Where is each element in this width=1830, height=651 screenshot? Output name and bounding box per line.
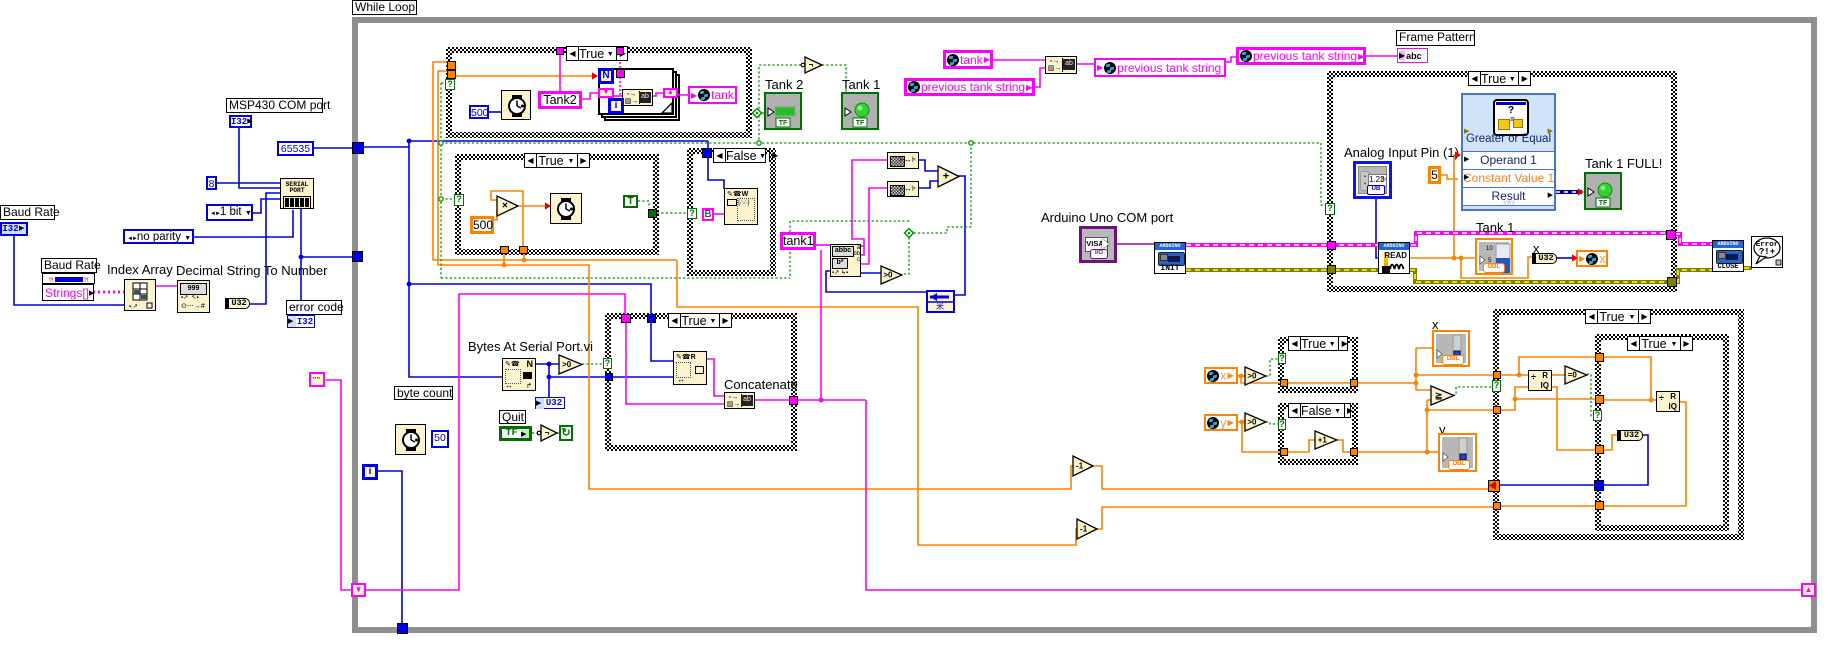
string control tank1 bbox=[780, 232, 816, 250]
wire: strings array to index array (bead) bbox=[93, 291, 124, 294]
wire: outer case quotient inputs bbox=[1500, 374, 1528, 376]
wire junction bbox=[1649, 398, 1654, 403]
y slider indicator bbox=[1438, 433, 1477, 472]
big case left tunnel olive bbox=[1327, 265, 1336, 274]
not gate top bbox=[800, 56, 824, 74]
wait ms icon case1 bbox=[501, 90, 531, 120]
case2 selector label True bbox=[524, 153, 590, 168]
wire junction bbox=[502, 263, 507, 268]
wire: blue to case3 B scanner bbox=[707, 141, 709, 158]
Tank 2 LED terminal bbox=[764, 92, 802, 130]
globe indicator previous tank string bbox=[1094, 58, 1226, 77]
Tank 1 LED terminal bbox=[841, 92, 879, 130]
boolean wire junction diamond bbox=[753, 109, 762, 118]
svg-text:≧: ≧ bbox=[1435, 391, 1443, 401]
serial port config icon bbox=[280, 178, 314, 209]
wire junction bbox=[1452, 256, 1457, 261]
indicator abc frame pattern bbox=[1397, 48, 1428, 63]
wire: Tank2 to shift register bbox=[582, 93, 598, 99]
scan string icon case3 bbox=[724, 188, 758, 225]
wire: blue branch into middle case bbox=[409, 284, 651, 315]
reverse string icon bbox=[926, 290, 955, 313]
TF quit control bbox=[499, 426, 532, 441]
wire: forloop pink tunnel feeds bbox=[619, 54, 621, 70]
wire: serial error to loop tunnel bbox=[301, 256, 353, 258]
wire: string length 1 to add bbox=[919, 160, 938, 171]
conversion U32 tag big case bbox=[1532, 253, 1557, 264]
label Index Array bbox=[107, 263, 173, 277]
wire: U32 baud to serial config bbox=[249, 193, 280, 304]
wire: arduino read value out bbox=[1410, 257, 1475, 259]
case1 top tunnel pink A bbox=[556, 47, 564, 55]
svg-text:TF: TF bbox=[1599, 200, 1608, 207]
cluster baud rate strings bbox=[42, 273, 95, 284]
wire junction bbox=[407, 282, 412, 287]
inner case selector label True bbox=[1627, 336, 1693, 351]
wire: decrement1 out to outer case tunnel bbox=[1092, 466, 1491, 489]
for loop left shift register bbox=[598, 88, 614, 98]
greater than 0 icon y bbox=[1245, 413, 1266, 431]
greater than 0 icon x bbox=[1245, 367, 1266, 385]
greater than 0 icon tank1 bbox=[881, 266, 902, 284]
wire: constant 8 to serial config bbox=[217, 182, 280, 184]
svg-text:>0: >0 bbox=[883, 271, 893, 280]
svg-text:TF: TF bbox=[856, 120, 865, 127]
middle case selector label True bbox=[668, 313, 732, 328]
globe indicator x bbox=[1576, 250, 1608, 267]
middle case top tunnel blue bbox=[647, 314, 656, 323]
label Baud Rate 1 bbox=[0, 205, 55, 220]
wire: left shift register to middle case bbox=[366, 294, 625, 590]
case2 bottom tunnel B bbox=[519, 246, 528, 254]
label While Loop bbox=[352, 0, 417, 15]
case structure arduino big case True bbox=[1327, 71, 1677, 292]
case1 selector label True bbox=[566, 46, 628, 61]
wire: serial error out down to error code bbox=[300, 209, 302, 315]
y case selector label False bbox=[1288, 403, 1351, 418]
wire: visa resource bus (magenta dashed) bbox=[1186, 233, 1667, 245]
wire: x across true case bbox=[1287, 382, 1350, 384]
label byte count bbox=[394, 386, 453, 400]
wire: concat2 to previous tank string indicator bbox=[1077, 63, 1094, 65]
svg-text:?!+: ?!+ bbox=[1759, 247, 1775, 257]
quotient remainder icon 2 bbox=[1656, 391, 1680, 412]
for loop tunnel magenta bbox=[616, 69, 625, 78]
svg-text:-1: -1 bbox=[1076, 462, 1084, 471]
concatenate icon top bbox=[1045, 56, 1077, 74]
svg-text:>0: >0 bbox=[1247, 418, 1257, 427]
index array icon bbox=[124, 279, 156, 311]
wire junction bbox=[1425, 450, 1430, 455]
middle case top tunnel magenta bbox=[621, 314, 631, 323]
svg-text:米: 米 bbox=[936, 301, 944, 311]
label error code bbox=[286, 300, 342, 315]
case structure x case True bbox=[1278, 337, 1358, 393]
wire junction bbox=[547, 375, 552, 380]
empty string constant bbox=[309, 372, 325, 387]
equals zero icon bbox=[1565, 366, 1587, 384]
arduino INIT icon bbox=[1154, 242, 1186, 274]
label MSP430 COM port bbox=[226, 98, 323, 113]
inner case selector terminal bbox=[1593, 410, 1602, 421]
wire junction bbox=[1513, 397, 1518, 402]
wire: T constant to case3 selector bbox=[638, 201, 649, 208]
globe control previous tank string 2 bbox=[1236, 47, 1366, 65]
while loop bbox=[352, 17, 1817, 633]
case structure inner quotient case True bbox=[1595, 334, 1729, 531]
conversion U32 tag bbox=[225, 298, 250, 309]
error dialog icon bbox=[1751, 236, 1783, 268]
case structure middle case True bbox=[605, 313, 797, 451]
svg-text:TF: TF bbox=[779, 120, 788, 127]
svg-text:>0: >0 bbox=[562, 360, 572, 369]
wire: y variable to case bbox=[1238, 421, 1245, 423]
wire: quotient1 IQ to inner tunnel bbox=[1552, 387, 1595, 450]
wire: y case increment bbox=[1287, 440, 1315, 452]
add icon bbox=[938, 166, 959, 187]
big case right tunnel magenta bbox=[1666, 230, 1676, 240]
case1 top tunnel pink B bbox=[616, 47, 624, 55]
wire: shift register to tank indicator bbox=[678, 93, 689, 95]
loop tunnel error bbox=[352, 251, 363, 262]
case structure case2 (multiply wait) True bbox=[455, 154, 659, 255]
wire: bytes at serial out to greater-than-0 bbox=[536, 363, 559, 365]
wire junction bbox=[547, 362, 552, 367]
string length icon 2 bbox=[887, 181, 919, 197]
wait ms icon case2 bbox=[550, 193, 582, 224]
wire: byte count into middle case bbox=[613, 376, 673, 378]
wire: inner tunnel to u32 conversion bbox=[1603, 435, 1618, 450]
wire: tank2 feed from tunnel bbox=[559, 54, 561, 91]
wire: orange trunk left of case1 bbox=[433, 62, 677, 260]
wait ms icon bottom bbox=[395, 424, 426, 455]
loop condition terminal bbox=[559, 425, 573, 441]
ring constant no parity bbox=[123, 229, 194, 244]
wire: decrement2 out to outer case tunnel bbox=[1096, 507, 1493, 529]
case1 selector terminal bbox=[445, 79, 455, 90]
coercion arrow bbox=[1572, 254, 1578, 261]
case3 selector terminal bbox=[687, 208, 697, 219]
wire: concat to right shift register bbox=[650, 93, 663, 96]
wire: result boolean to Tank1 FULL LED bbox=[1556, 190, 1582, 194]
bytes at serial port icon bbox=[502, 358, 536, 391]
string length icon 1 bbox=[887, 152, 919, 169]
case structure y case False bbox=[1278, 403, 1358, 465]
wire junction bbox=[819, 398, 824, 403]
svg-text:>0: >0 bbox=[1247, 372, 1257, 381]
svg-text:+1: +1 bbox=[1318, 436, 1328, 445]
wire: match R to concat3 bbox=[706, 359, 724, 396]
svg-text:¬: ¬ bbox=[545, 429, 550, 438]
greater than 0 icon bytes bbox=[559, 355, 582, 374]
constant 500 case1 bbox=[469, 105, 489, 119]
wire: to-u32 to x variable bbox=[1556, 257, 1572, 259]
wire: index array to decimal string bbox=[156, 285, 177, 287]
concatenate icon middle bbox=[724, 392, 755, 409]
label Frame Pattern bbox=[1396, 30, 1475, 46]
case1 tunnel orange A bbox=[447, 61, 456, 70]
svg-text:10: 10 bbox=[1486, 246, 1493, 252]
coercion arrow bbox=[545, 202, 551, 209]
wire: x greater0 to case selector bbox=[1266, 359, 1278, 376]
VISA resource constant bbox=[1079, 226, 1117, 263]
wire: string length 2 to add bbox=[919, 181, 938, 188]
wire: multiply to wait bbox=[519, 205, 545, 207]
wire junction bbox=[1239, 374, 1244, 379]
loop right shift register bbox=[1801, 583, 1816, 597]
outer case selector label True bbox=[1585, 309, 1651, 324]
terminal I32 MSP430 bbox=[229, 115, 252, 128]
decrement icon 2 bbox=[1077, 519, 1097, 539]
case2 selector terminal bbox=[454, 194, 464, 206]
decimal string to number icon bbox=[177, 280, 210, 313]
label Decimal String To Number bbox=[176, 264, 327, 278]
loop left shift register bbox=[351, 583, 366, 597]
big case left tunnel magenta bbox=[1327, 241, 1336, 250]
outer case selector terminal bbox=[1492, 380, 1501, 392]
for loop with shift registers bbox=[604, 74, 680, 121]
wire: equals0 to inner case selector bbox=[1587, 374, 1594, 416]
wire: quotient2 out loop bbox=[1603, 402, 1686, 506]
wire: inner u32 conversion blue loop bbox=[1603, 435, 1648, 485]
wire: previous tank string to concat2 bbox=[1034, 68, 1045, 87]
indicator tank (globe) bbox=[688, 86, 737, 104]
globe control x bbox=[1204, 367, 1238, 384]
y case bottom tunnels bbox=[1280, 448, 1288, 456]
case structure case1 (Tank2 writer) True bbox=[446, 47, 752, 138]
terminal I32 Baud Rate bbox=[0, 222, 28, 236]
wire: visa resource to arduino init bbox=[1117, 243, 1154, 245]
x case selector label True bbox=[1288, 336, 1348, 351]
wire junction bbox=[1414, 381, 1419, 386]
wire: y greater0 to case selector bbox=[1266, 422, 1278, 424]
wire: bytes greater0 to middle case selector bbox=[582, 363, 604, 365]
case1 tunnel orange B bbox=[447, 70, 456, 79]
concatenate icon forloop bbox=[622, 89, 653, 106]
wire: inner case quotient2 inputs bbox=[1603, 357, 1651, 400]
wire: case1 diamond to Tank2 LED and Not gate bbox=[759, 65, 802, 144]
coercion arrow bbox=[1455, 151, 1461, 158]
constant 8 bbox=[206, 176, 217, 190]
case3 selector label False bbox=[713, 148, 766, 163]
wire: y case out to y slider and compare bbox=[1357, 451, 1427, 453]
inner case left tunnels bbox=[1595, 353, 1604, 362]
wire: boolean selector trunk (green dotted) bbox=[440, 83, 442, 278]
conversion U32 tag inner bbox=[1617, 430, 1643, 441]
wire: 500 to multiply bbox=[493, 210, 497, 220]
globe control y bbox=[1204, 414, 1238, 431]
svg-text:-1: -1 bbox=[1080, 525, 1088, 534]
wire: compare to outer case selector bbox=[1453, 387, 1493, 395]
B string constant bbox=[702, 208, 714, 221]
wire: Baud Rate I32 to Index Array bbox=[14, 236, 124, 305]
Tank 1 FULL LED bbox=[1584, 172, 1622, 210]
wire: blue trunk inside loop bbox=[364, 146, 409, 148]
label Analog Input Pin (1) bbox=[1344, 146, 1459, 160]
wire junction bbox=[1517, 373, 1522, 378]
strings[] element bbox=[42, 284, 94, 301]
big case selector label True bbox=[1468, 71, 1531, 86]
for loop right shift register bbox=[663, 88, 678, 98]
wire: case2 multiply feedback bbox=[491, 191, 523, 254]
wire: shift register to concat bbox=[613, 95, 623, 97]
wire: add result down to reverse node bbox=[955, 176, 965, 295]
not gate quit bbox=[536, 424, 559, 442]
wire: concat3 out to tank1 and bottom bus bbox=[755, 399, 790, 401]
boolean wire junction bbox=[439, 141, 443, 145]
wire: match offset to greater-than-0 bbox=[861, 272, 881, 274]
arduino READ icon bbox=[1378, 242, 1410, 274]
svg-text:+: + bbox=[943, 171, 949, 183]
match pattern icon tank1 bbox=[830, 244, 861, 277]
loop tunnel 65535 bbox=[352, 142, 364, 154]
wire: x variable to case bbox=[1238, 375, 1245, 377]
wire: not gate to Tank1 LED bbox=[822, 65, 846, 104]
wire: case2 tunnels drop bbox=[523, 254, 525, 261]
label Tank 2 bbox=[765, 78, 803, 92]
wire junction bbox=[299, 255, 304, 260]
big case right tunnel olive bbox=[1667, 277, 1677, 287]
middle case right tunnel magenta bbox=[789, 396, 798, 405]
svg-text:¬: ¬ bbox=[809, 61, 814, 70]
wire: quit not to loop condition bbox=[532, 432, 538, 434]
for loop N terminal bbox=[598, 68, 614, 84]
boolean wire junction bbox=[757, 141, 761, 145]
case structure case3 False bbox=[687, 148, 776, 276]
case3 top tunnel blue bbox=[702, 148, 712, 158]
label Tank 1 FULL! bbox=[1585, 157, 1662, 171]
constant 65535 bbox=[277, 141, 314, 156]
boolean wire junction diamond bbox=[905, 229, 914, 238]
loop bottom tunnel i bbox=[397, 623, 408, 634]
wire: 500 to wait (case1) bbox=[489, 111, 501, 113]
label Concatenate bbox=[724, 378, 798, 392]
outer case left tunnels bbox=[1493, 371, 1501, 379]
wire: quotient1 R to equals0 bbox=[1552, 374, 1565, 376]
boolean wire junction bbox=[439, 197, 443, 201]
express VI Greater or Equal bbox=[1461, 93, 1556, 211]
label Quit bbox=[499, 410, 526, 424]
wire: i terminal to bottom tunnel bbox=[377, 471, 402, 628]
quotient remainder icon 1 bbox=[1528, 370, 1552, 391]
constant 5 bbox=[1428, 166, 1441, 184]
wire: 65535 to loop tunnel bbox=[314, 147, 358, 149]
wire: error cluster bus (olive dashed) bbox=[1186, 268, 1327, 272]
T constant bbox=[623, 195, 638, 208]
arduino CLOSE icon bbox=[1712, 240, 1744, 272]
x slider indicator bbox=[1432, 330, 1470, 367]
wire: B constant to scanner bbox=[714, 213, 725, 215]
wire: case1 tunnel to N terminal bbox=[456, 75, 593, 77]
wire: constant 5 to Constant Value 1 bbox=[1441, 175, 1458, 179]
label Arduino Uno COM port bbox=[1041, 211, 1173, 225]
wire: analog pin to arduino read bbox=[1376, 198, 1378, 258]
label Baud Rate 2 bbox=[41, 258, 97, 273]
label Tank 1 tank bbox=[1476, 221, 1514, 235]
wire: match outputs to string lengths bbox=[852, 160, 887, 255]
wire junction bbox=[1240, 420, 1245, 425]
svg-text:=0: =0 bbox=[1568, 371, 1578, 380]
wire junction bbox=[522, 258, 527, 263]
x case bottom tunnels bbox=[1280, 379, 1288, 387]
compare greater or equal icon bbox=[1431, 386, 1454, 405]
indicator U32 byte count bbox=[535, 397, 565, 409]
for loop i terminal bbox=[608, 98, 624, 114]
wire: tank var to concat2 bbox=[993, 59, 1045, 61]
case2 right tunnel dark green bbox=[648, 209, 657, 218]
ring constant 1 bit bbox=[206, 204, 253, 221]
wire: MSP430 COM port to serial config bbox=[239, 128, 280, 188]
label Bytes At Serial Port.vi bbox=[468, 340, 593, 354]
match pattern R icon bbox=[673, 351, 707, 385]
wire: no parity to serial config bbox=[194, 210, 293, 237]
wire: previous tank string to frame pattern bbox=[1366, 55, 1397, 57]
wire: empty string constant to left shift register bbox=[326, 380, 352, 590]
tank indicator Tank 1 bbox=[1475, 238, 1513, 275]
string constant Tank2 bbox=[538, 91, 582, 109]
wire junction bbox=[1459, 256, 1464, 261]
i iteration terminal bbox=[362, 464, 378, 480]
y case selector terminal bbox=[1278, 419, 1286, 430]
svg-text:×: × bbox=[502, 201, 508, 212]
case2 bottom tunnel A bbox=[500, 246, 509, 254]
wire: reverse node to match pattern offset bbox=[826, 271, 927, 292]
constant 500 case2 bbox=[470, 216, 494, 234]
indicator I32 error code bbox=[287, 315, 315, 328]
decrement icon 1 bbox=[1073, 456, 1093, 476]
constant 50 bbox=[431, 430, 449, 448]
multiply icon bbox=[497, 196, 518, 216]
middle case left tunnel blue bbox=[605, 373, 613, 381]
x case selector terminal bbox=[1278, 353, 1286, 364]
wire: previous tank string link bbox=[1226, 57, 1236, 62]
globe control tank bbox=[943, 50, 993, 69]
label x small bbox=[1533, 242, 1540, 256]
label x slider bbox=[1432, 318, 1439, 332]
wire junction bbox=[1425, 408, 1430, 413]
wire: orange trunk to decrement 2 bbox=[677, 260, 1077, 545]
big case selector terminal bbox=[1325, 203, 1335, 215]
globe control previous tank string 1 bbox=[904, 78, 1035, 96]
wire junction bbox=[407, 139, 412, 144]
label y slider bbox=[1439, 423, 1446, 437]
increment icon bbox=[1315, 431, 1337, 449]
wire: x case out to x slider and compare bbox=[1357, 382, 1416, 384]
boolean wire junction bbox=[969, 141, 973, 145]
wire: long orange down to decrement 1 bbox=[589, 265, 1073, 489]
case structure outer quotient case True bbox=[1493, 309, 1744, 540]
svg-text:▪.↗: ▪.↗ bbox=[129, 304, 138, 310]
wire: 1 bit to serial config bbox=[253, 199, 280, 213]
wire junction bbox=[1414, 373, 1419, 378]
coercion arrow bbox=[592, 72, 598, 79]
coercion arrow bbox=[1578, 188, 1584, 195]
label Tank 1 bbox=[842, 78, 880, 92]
wire: tank1 to match pattern bbox=[816, 244, 830, 246]
middle case selector terminal bbox=[603, 358, 612, 369]
analog input pin terminal bbox=[1353, 161, 1392, 199]
